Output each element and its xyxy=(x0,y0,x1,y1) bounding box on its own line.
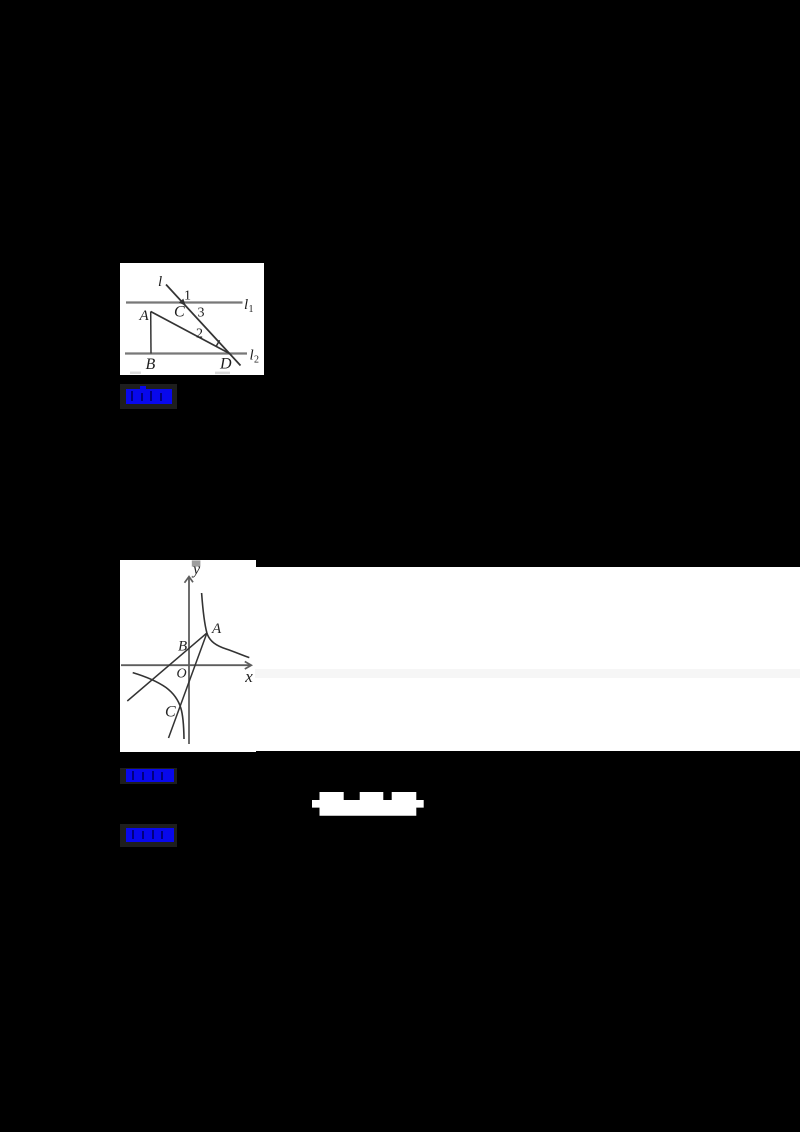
figure 1: parallel lines l1,l2 cut by transversal l with triangle ABD xyxy=(120,263,264,375)
answer tag 1 glyph marks xyxy=(131,391,133,401)
line l2 xyxy=(125,352,247,354)
svg-text:2: 2 xyxy=(196,327,203,342)
answer tag 2 blue block xyxy=(126,769,174,782)
line AB extended xyxy=(127,633,207,701)
answer tag 3 blue block xyxy=(126,828,174,843)
svg-text:y: y xyxy=(191,561,201,578)
answer tag 1 backing xyxy=(120,384,177,409)
answer tag 3 backing xyxy=(120,824,177,847)
answer tag 2 glyph marks xyxy=(132,771,134,780)
svg-text:O: O xyxy=(176,666,186,681)
answer tag 2 backing xyxy=(120,768,177,785)
x axis xyxy=(121,664,250,666)
line AC xyxy=(168,633,206,738)
svg-text:B: B xyxy=(178,638,187,654)
blob body xyxy=(312,792,424,816)
faint smudge under B xyxy=(130,372,141,375)
svg-text:3: 3 xyxy=(198,306,205,321)
svg-text:l: l xyxy=(158,274,162,290)
angle tick near D xyxy=(216,340,219,346)
svg-text:1: 1 xyxy=(184,289,191,304)
svg-text:C: C xyxy=(174,304,185,321)
svg-text:x: x xyxy=(244,666,253,685)
y axis arrowhead xyxy=(184,576,193,582)
faint smudge under D xyxy=(215,372,230,375)
segment AD xyxy=(151,312,230,354)
redacted white formula blob xyxy=(312,792,424,816)
figure 2 white panel xyxy=(120,560,256,752)
answer tag 1 bump xyxy=(140,386,146,389)
svg-text:A: A xyxy=(211,620,222,636)
faint gray band in strip xyxy=(255,669,800,678)
y axis xyxy=(188,578,190,744)
svg-text:A: A xyxy=(139,308,150,324)
svg-text:1: 1 xyxy=(249,304,254,315)
hyperbola branch quadrant 1 xyxy=(201,593,249,658)
x axis arrowhead xyxy=(244,661,251,669)
answer tag 3 glyph marks xyxy=(132,830,134,839)
svg-text:C: C xyxy=(165,703,176,720)
right white strip xyxy=(255,567,800,752)
line l1 xyxy=(126,301,243,303)
arrowhead on l at C xyxy=(179,299,186,306)
transversal l xyxy=(166,285,241,366)
svg-text:B: B xyxy=(146,356,156,373)
gray artifact square xyxy=(191,560,200,566)
answer tag 1 blue block xyxy=(126,389,173,405)
figure 2: hyperbola with lines, axes xyxy=(120,560,256,752)
hyperbola branch quadrant 3 xyxy=(132,672,183,738)
svg-text:2: 2 xyxy=(254,355,259,366)
svg-text:D: D xyxy=(219,356,232,373)
segment AB xyxy=(150,312,152,354)
